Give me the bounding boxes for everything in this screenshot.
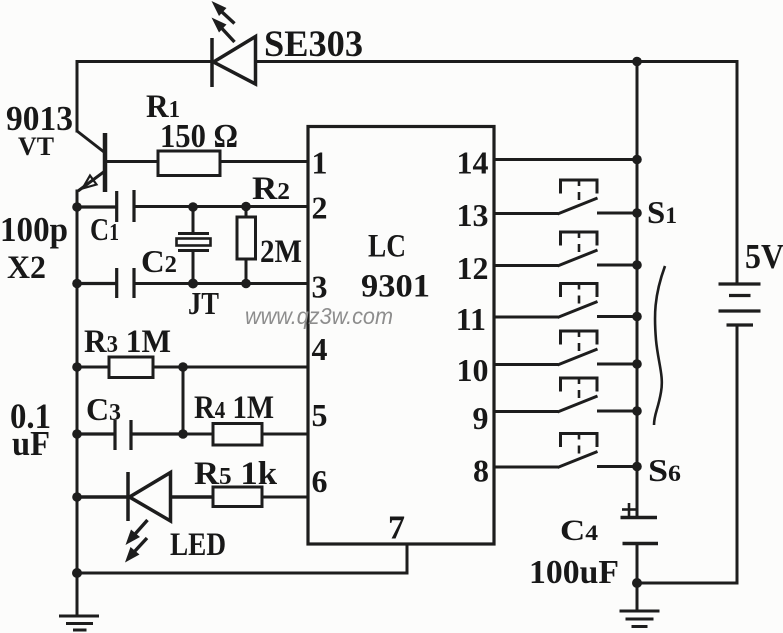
node S1 bus (632, 208, 642, 218)
svg-text:X2: X2 (7, 250, 46, 286)
node C3 R4 (178, 429, 188, 439)
resistor R1 (158, 151, 220, 176)
capacitor C4 (621, 503, 659, 583)
svg-text:13: 13 (457, 197, 489, 233)
ground right (620, 583, 660, 627)
wire top rail right (256, 60, 738, 63)
switch S5 (494, 378, 637, 412)
svg-text:7: 7 (388, 510, 405, 547)
node crystal top (188, 202, 198, 212)
svg-text:11: 11 (456, 301, 486, 337)
resistor R3 (77, 357, 308, 378)
svg-text:VT: VT (18, 132, 54, 161)
node R2 bottom (241, 279, 251, 289)
svg-text:JT: JT (188, 285, 219, 321)
svg-text:4: 4 (312, 331, 328, 367)
wire battery drop (736, 62, 739, 285)
wire top rail left (77, 60, 212, 63)
arrows emitting SE303 (212, 1, 235, 42)
resistor R2 (237, 207, 256, 284)
LED D2 (77, 472, 213, 521)
node LED bus (72, 492, 82, 502)
wire pin2 line (134, 205, 308, 208)
node C4 ground (632, 578, 642, 588)
svg-text:R3 1M: R3 1M (84, 324, 171, 360)
wire battery bottom (637, 325, 737, 583)
node S3 bus (632, 312, 642, 322)
arrows emitting LED (125, 520, 148, 563)
svg-text:SE303: SE303 (264, 24, 363, 65)
node S5 bus (632, 406, 642, 416)
transistor Q1 9013 (77, 131, 105, 192)
resistor R5 (213, 487, 308, 507)
svg-text:5: 5 (312, 397, 328, 433)
svg-text:3: 3 (312, 269, 328, 305)
svg-text:2: 2 (312, 190, 328, 226)
wire pin7 drop (406, 544, 409, 573)
switch S2 (494, 232, 637, 266)
svg-text:R5 1k: R5 1k (194, 456, 278, 492)
capacitor C1 (77, 190, 134, 222)
wire pin14 to bus (494, 158, 637, 161)
switch S3 (494, 284, 637, 318)
svg-text:150 Ω: 150 Ω (160, 118, 238, 155)
node ground left (72, 568, 82, 578)
svg-text:9: 9 (473, 400, 489, 436)
node S6 bus (632, 462, 642, 472)
capacitor C3 (77, 420, 183, 450)
ground left (59, 573, 99, 630)
node crystal bottom (188, 279, 198, 289)
svg-text:5V: 5V (745, 237, 783, 276)
svg-text:LED: LED (170, 527, 226, 563)
switch S1 (494, 180, 637, 214)
svg-text:www.qz3w.com: www.qz3w.com (245, 303, 393, 329)
IC U1 LC9301 (308, 127, 494, 545)
svg-text:14: 14 (457, 145, 489, 181)
wire bottom ground rail (77, 572, 407, 575)
node R2 top (241, 202, 251, 212)
wire left bus lower (76, 191, 79, 573)
node S4 bus (632, 359, 642, 369)
svg-text:LC: LC (368, 229, 406, 265)
node R3 bus (72, 362, 82, 372)
node pin14 bus (632, 155, 642, 165)
wire R3 R4 junction (182, 367, 185, 434)
wire base to R1 (107, 160, 158, 163)
switch S6 (494, 434, 637, 468)
node C3 bus (72, 429, 82, 439)
LED D1 SE303 (212, 37, 256, 88)
svg-text:6: 6 (312, 463, 328, 499)
node R3 right (178, 362, 188, 372)
svg-text:R4 1M: R4 1M (194, 390, 274, 426)
node top rail bus (632, 57, 642, 67)
node C2 bus (72, 279, 82, 289)
svg-text:9301: 9301 (361, 269, 430, 305)
node S2 bus (632, 260, 642, 270)
svg-text:2M: 2M (260, 234, 302, 270)
wire pin3 line (134, 282, 308, 285)
capacitor C2 (77, 268, 134, 298)
crystal JT (177, 207, 211, 284)
node C1 bus (72, 202, 82, 212)
svg-text:12: 12 (457, 250, 489, 286)
svg-text:8: 8 (473, 453, 489, 489)
svg-text:uF: uF (12, 424, 50, 463)
battery BT1 5V (719, 284, 761, 325)
switch S4 (494, 331, 637, 365)
resistor R4 (183, 424, 308, 446)
svg-text:10: 10 (457, 352, 489, 388)
svg-text:100p: 100p (0, 210, 68, 249)
wire switch bus (636, 62, 639, 518)
wire left bus upper (76, 62, 79, 132)
svg-text:1: 1 (312, 145, 328, 181)
gang curve (654, 266, 665, 425)
node dots (72, 57, 642, 588)
svg-text:100uF: 100uF (529, 554, 619, 591)
wire R1 to pin1 (220, 160, 308, 163)
